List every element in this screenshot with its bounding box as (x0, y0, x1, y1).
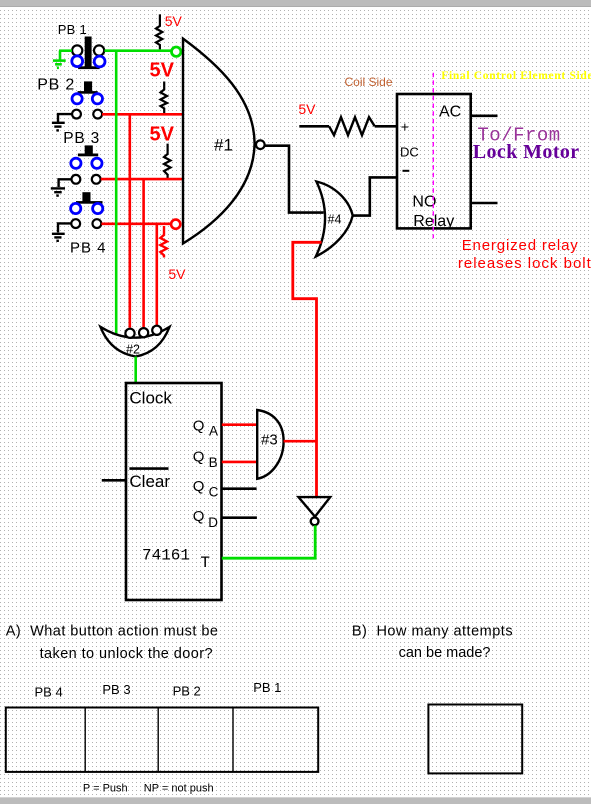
svg-text:PB 4: PB 4 (35, 685, 63, 700)
pushbutton PB3 plunger (85, 145, 93, 154)
wire PB1 green from ground to contact (59, 49, 72, 52)
AND gate U3 body (257, 410, 283, 479)
wire inverter to T (green) (222, 525, 315, 558)
svg-text:PB 3: PB 3 (102, 682, 130, 697)
wire QB to AND3 (red) (222, 461, 257, 464)
answer box B (428, 705, 522, 774)
wire QC stub (222, 487, 257, 490)
wire 5V to coil resistor (299, 125, 329, 128)
pushbutton PB2 upper contacts (blue) (72, 94, 82, 104)
svg-text:B: B (209, 455, 218, 470)
svg-text:5V: 5V (165, 13, 183, 29)
inverter bubble (311, 517, 319, 525)
svg-text:PB 1: PB 1 (58, 22, 87, 37)
pushbutton PB3 upper contacts (blue) (71, 158, 81, 168)
svg-text:#2: #2 (126, 342, 140, 356)
wire PB4 red to NAND bubble (101, 223, 171, 226)
svg-text:+: + (401, 119, 409, 135)
svg-text:Q: Q (193, 478, 205, 495)
svg-text:can be made?: can be made? (399, 645, 491, 661)
svg-text:PB 3: PB 3 (63, 130, 100, 147)
NAND output bubble (256, 140, 265, 149)
svg-text:A) What button action must be: A) What button action must be (6, 624, 219, 640)
dashed separator (magenta) (432, 73, 434, 239)
wire NAND output to OR4 (265, 146, 324, 213)
svg-text:PB 2: PB 2 (37, 76, 75, 93)
wire relay NO stub (471, 202, 498, 205)
svg-text:Clear: Clear (129, 472, 170, 491)
svg-text:PB 1: PB 1 (253, 680, 281, 695)
inverter U5 triangle (299, 497, 331, 516)
svg-text:NP = not push: NP = not push (144, 783, 214, 795)
label - (403, 170, 410, 172)
pushbutton PB1 upper contacts (black) (72, 45, 82, 55)
OR2 input bubble 2 (PB3) (139, 328, 148, 337)
wire PB2 red to NAND (102, 113, 183, 116)
wire PB3 to ground (59, 179, 72, 187)
svg-text:taken to unlock the door?: taken to unlock the door? (40, 646, 213, 662)
answer table A (6, 708, 318, 772)
svg-text:D: D (208, 515, 218, 530)
svg-text:C: C (209, 485, 219, 500)
ground PB4 (52, 234, 65, 241)
pushbutton PB4 plunger (82, 192, 90, 202)
input bubble PB4 at NAND (red) (171, 220, 180, 229)
OR2 input bubble 1 (PB2) (125, 329, 134, 338)
svg-text:#3: #3 (261, 431, 278, 448)
bottom gray bar (0, 797, 591, 804)
pushbutton PB3 lower contacts (black) (72, 175, 81, 184)
wire OR4 output to relay - (353, 177, 397, 215)
svg-text:#1: #1 (214, 135, 233, 154)
resistor R3 (pull-up PB3) (164, 144, 171, 179)
resistor R5 (coil series) (329, 117, 375, 135)
OR gate U4 body (316, 182, 353, 257)
svg-text:Energized relay: Energized relay (462, 237, 579, 254)
pushbutton PB4 upper contacts (blue) (71, 203, 81, 213)
pushbutton PB2 lower contacts (black) (72, 110, 81, 119)
svg-text:Q: Q (193, 418, 205, 435)
svg-text:AC: AC (439, 104, 461, 121)
svg-text:5V: 5V (168, 266, 186, 282)
wire PB3 drop to OR2 (142, 179, 145, 327)
wire PB1 green to NAND bubble (105, 49, 172, 52)
wire AND3 output red (284, 440, 317, 443)
svg-text:Final Control Element Side: Final Control Element Side (441, 70, 591, 82)
svg-text:74161: 74161 (142, 547, 190, 565)
pushbutton PB1 plunger (85, 37, 92, 67)
svg-text:#4: #4 (328, 213, 342, 227)
wire PB1 drop to OR2 (115, 51, 118, 334)
svg-text:5V: 5V (150, 124, 175, 146)
wire QA to AND3 (red) (222, 423, 257, 426)
resistor R1 (pull-up, top) (156, 14, 162, 49)
svg-text:T: T (200, 554, 210, 572)
wire PB3 red to NAND (101, 178, 183, 181)
NAND gate U1 body (183, 39, 255, 244)
svg-text:PB 2: PB 2 (173, 683, 201, 698)
ground PB3 (51, 188, 65, 195)
svg-text:DC: DC (400, 145, 419, 160)
wire resistor to relay + (375, 125, 397, 128)
svg-text:B) How many attempts: B) How many attempts (352, 624, 513, 640)
wire PB2 drop to OR2 (129, 114, 132, 327)
resistor R2 (pull-up PB2) (161, 82, 168, 114)
wire PB2 to ground (58, 114, 72, 122)
svg-text:P = Push: P = Push (83, 783, 128, 795)
top gray bar (0, 0, 591, 7)
svg-text:releases lock bolt: releases lock bolt (458, 255, 591, 272)
svg-text:Lock Motor: Lock Motor (473, 141, 580, 163)
wire PB4 drop to OR2 (156, 224, 159, 325)
svg-text:PB 4: PB 4 (70, 240, 107, 257)
ground PB1 (green) (53, 51, 66, 68)
ground PB2 (52, 123, 65, 131)
pushbutton PB2 plunger (84, 81, 92, 91)
wire OR2 output green to clock (134, 357, 137, 385)
wire QD stub (222, 516, 257, 519)
pushbutton PB1 lower contacts (blue) (72, 56, 83, 67)
svg-text:A: A (209, 424, 218, 439)
counter 74161 box (126, 383, 222, 600)
wire PB4 to ground (58, 223, 71, 232)
relay box (397, 94, 471, 228)
OR gate U2 body (pointing down) (101, 327, 170, 357)
svg-text:5V: 5V (150, 60, 175, 82)
svg-text:Clock: Clock (129, 388, 172, 407)
resistor R4 (red, PB4) (160, 226, 167, 258)
wire OR4 red input (293, 242, 322, 496)
wire Clear input stub (102, 479, 126, 482)
svg-text:Q: Q (193, 449, 205, 466)
input bubble PB1 at NAND (green) (172, 47, 181, 56)
wire relay AC stub (471, 115, 498, 118)
svg-text:Q: Q (193, 508, 205, 525)
svg-text:Coil Side: Coil Side (345, 75, 393, 89)
svg-text:5V: 5V (298, 101, 316, 117)
pushbutton PB4 lower contacts (black) (71, 219, 80, 228)
OR2 input bubble 3 (PB4) (152, 326, 161, 335)
